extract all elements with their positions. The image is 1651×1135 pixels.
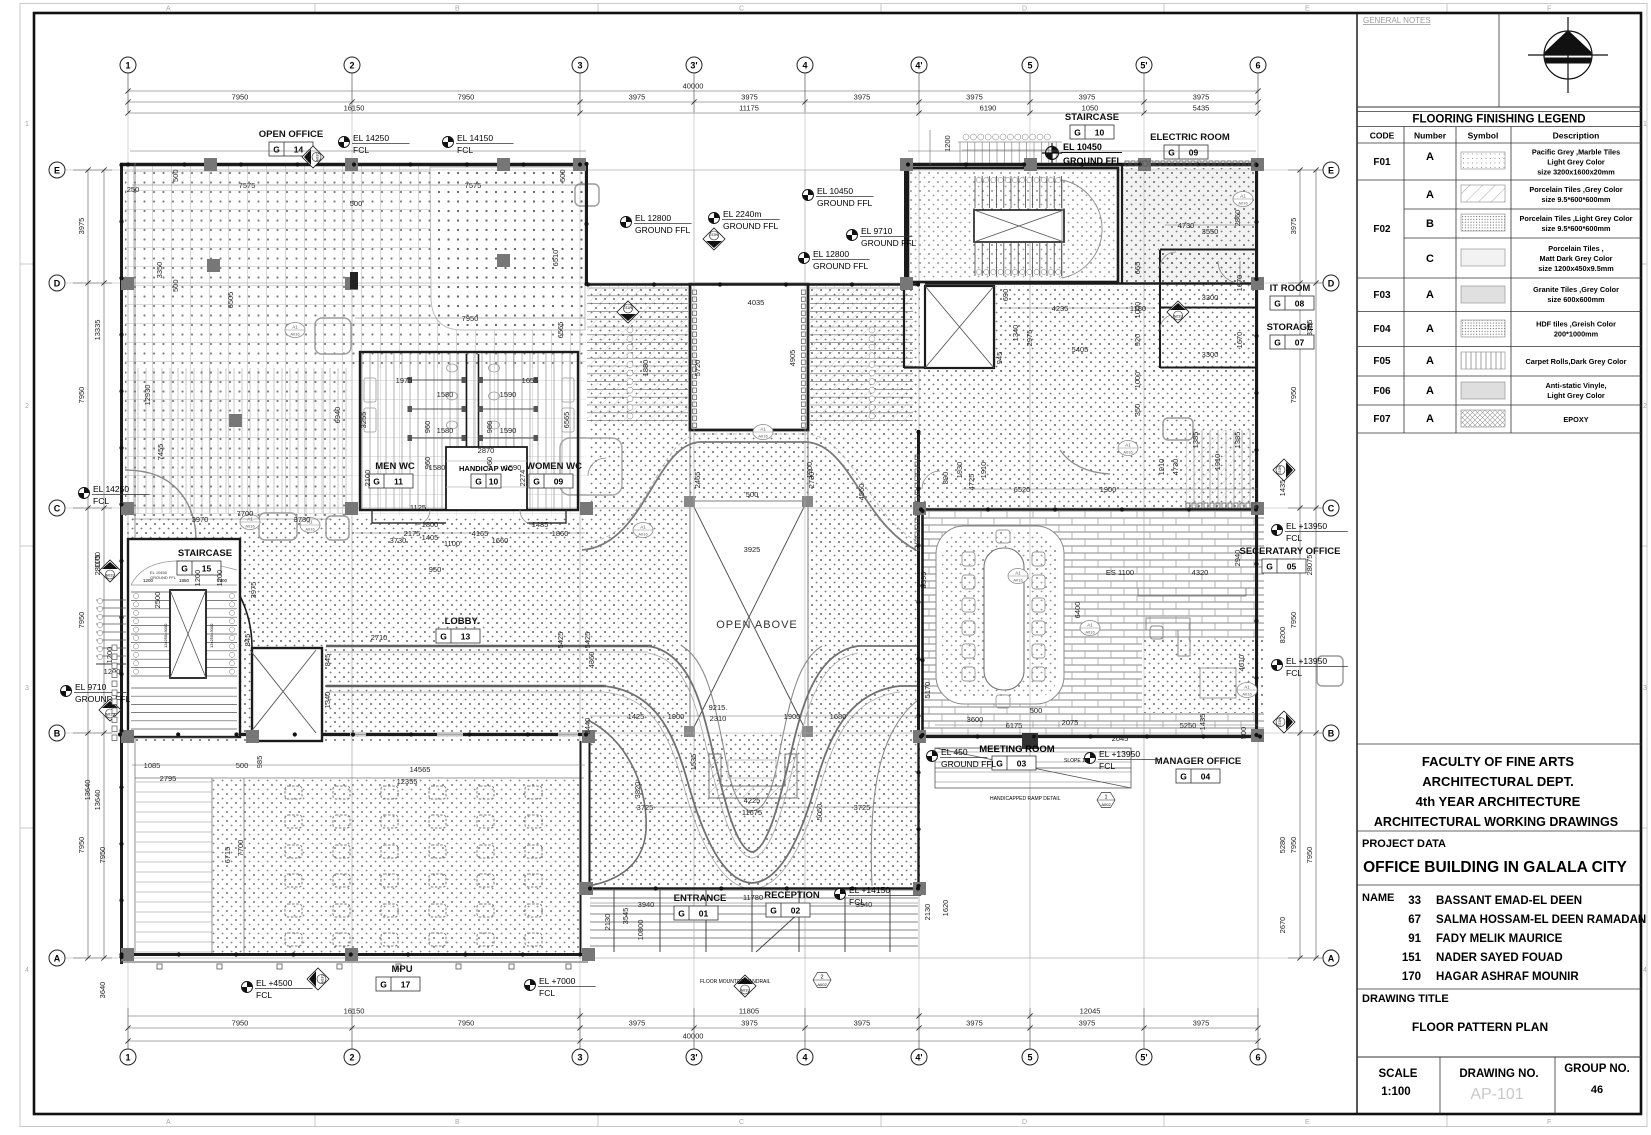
svg-text:500: 500	[558, 169, 567, 182]
svg-text:A1: A1	[760, 427, 766, 432]
svg-text:GROUND FFL: GROUND FFL	[1063, 156, 1122, 166]
svg-text:A1: A1	[1087, 623, 1093, 628]
svg-text:1: 1	[1643, 121, 1647, 128]
svg-text:1435: 1435	[1198, 714, 1207, 731]
svg-text:HDF tiles ,Greish Color: HDF tiles ,Greish Color	[1536, 320, 1616, 329]
svg-text:3975: 3975	[741, 1019, 758, 1028]
svg-text:G: G	[273, 145, 280, 155]
svg-text:3550: 3550	[1202, 227, 1219, 236]
svg-text:950: 950	[429, 565, 442, 574]
svg-text:3600: 3600	[967, 715, 984, 724]
svg-text:MPU: MPU	[391, 964, 412, 975]
svg-text:09: 09	[554, 477, 564, 487]
svg-text:A033: A033	[623, 306, 633, 311]
svg-text:2975: 2975	[1025, 330, 1034, 347]
svg-text:7950: 7950	[77, 612, 86, 629]
svg-text:2130: 2130	[923, 904, 932, 921]
svg-text:Anti-static Vinyle,: Anti-static Vinyle,	[1545, 381, 1606, 390]
svg-text:GROUND FFL: GROUND FFL	[817, 198, 873, 208]
svg-text:A016: A016	[1013, 578, 1023, 583]
grid bubbles top	[120, 57, 1266, 73]
wavy curve U outer companion	[648, 653, 858, 858]
svg-text:960: 960	[485, 421, 494, 434]
svg-text:4225: 4225	[744, 796, 761, 805]
svg-text:3730: 3730	[294, 515, 311, 524]
svg-text:4560: 4560	[857, 484, 866, 501]
svg-text:5050: 5050	[815, 804, 824, 821]
svg-text:size 3200x1600x20mm: size 3200x1600x20mm	[1537, 168, 1615, 177]
svg-text:1: 1	[25, 121, 29, 128]
svg-text:3640: 3640	[98, 982, 107, 999]
outer wall top-left wing	[120, 163, 588, 964]
svg-text:1435: 1435	[1278, 480, 1287, 497]
elevation marker EL 14250	[339, 133, 410, 155]
svg-text:4360: 4360	[587, 652, 596, 669]
svg-text:1: 1	[125, 61, 130, 71]
svg-text:F04: F04	[1373, 324, 1391, 335]
svg-text:A: A	[1426, 355, 1434, 367]
section markers	[99, 560, 121, 582]
svg-text:960: 960	[423, 457, 432, 470]
staircase G10 treads lower	[975, 243, 1061, 276]
svg-text:16150: 16150	[344, 1007, 365, 1016]
interior dim lines	[132, 185, 1258, 903]
svg-text:5425: 5425	[556, 632, 565, 649]
svg-text:A: A	[166, 6, 171, 13]
elevation marker EL +13950	[1272, 656, 1348, 678]
svg-text:4th YEAR ARCHITECTURE: 4th YEAR ARCHITECTURE	[1416, 794, 1581, 809]
svg-text:2: 2	[820, 975, 823, 981]
svg-text:3975: 3975	[77, 218, 86, 235]
svg-text:4': 4'	[915, 61, 922, 71]
svg-text:WOMEN WC: WOMEN WC	[526, 461, 582, 472]
svg-text:4: 4	[1643, 967, 1647, 974]
svg-text:F: F	[1547, 1119, 1551, 1126]
svg-text:A033: A033	[105, 573, 115, 578]
svg-text:Symbol: Symbol	[1468, 131, 1499, 141]
svg-text:500: 500	[171, 279, 180, 292]
svg-text:EL 450: EL 450	[941, 747, 968, 757]
svg-text:17: 17	[401, 980, 411, 990]
elevation marker EL 9710	[847, 226, 917, 248]
svg-text:A033: A033	[1278, 465, 1283, 475]
svg-text:1000: 1000	[1133, 302, 1142, 319]
svg-text:08: 08	[1295, 299, 1305, 309]
svg-text:E: E	[1305, 6, 1310, 13]
electric room dotted floor	[1122, 168, 1258, 282]
svg-text:1620: 1620	[941, 900, 950, 917]
svg-text:4730: 4730	[1171, 459, 1180, 476]
svg-text:G: G	[533, 477, 540, 487]
svg-text:G: G	[770, 906, 777, 916]
svg-text:4905: 4905	[788, 350, 797, 367]
svg-text:1670: 1670	[1235, 275, 1244, 292]
entrance block walls	[588, 430, 920, 889]
svg-text:500: 500	[171, 169, 180, 182]
svg-text:3975: 3975	[1193, 93, 1210, 102]
staircase G10 tread number rows	[963, 134, 1061, 275]
MPU floor dots	[212, 778, 580, 955]
MPU top wall	[120, 596, 588, 735]
svg-text:GROUND FFL: GROUND FFL	[635, 225, 691, 235]
svg-text:7950: 7950	[98, 847, 107, 864]
svg-text:FCL: FCL	[256, 990, 272, 1000]
svg-text:SECERATARY OFFICE: SECERATARY OFFICE	[1240, 546, 1341, 557]
svg-text:4320: 4320	[1192, 568, 1209, 577]
svg-text:1:100: 1:100	[1381, 1086, 1410, 1098]
svg-text:F: F	[1547, 6, 1551, 13]
svg-text:845: 845	[323, 654, 332, 667]
svg-text:500: 500	[1239, 727, 1248, 740]
svg-text:A: A	[166, 1119, 171, 1126]
svg-text:size 9.5*600*600mm: size 9.5*600*600mm	[1542, 195, 1611, 204]
svg-text:5: 5	[1027, 1053, 1032, 1063]
svg-text:3: 3	[25, 685, 29, 692]
escape stair circled numbers	[627, 327, 875, 419]
svg-text:size 9.5*600*600mm: size 9.5*600*600mm	[1542, 224, 1611, 233]
svg-text:1535: 1535	[689, 754, 698, 771]
svg-text:1: 1	[125, 1053, 130, 1063]
svg-text:EL +13950: EL +13950	[1286, 656, 1327, 666]
elevation marker EL 14250	[79, 484, 150, 506]
meeting chairs	[962, 530, 1045, 708]
staircase G15 treads	[131, 592, 237, 737]
staircase G15 dim row	[131, 584, 237, 586]
svg-text:1670: 1670	[1235, 332, 1244, 349]
secretary dotted island	[1142, 640, 1264, 713]
svg-text:01: 01	[699, 909, 709, 919]
svg-text:G: G	[1168, 148, 1175, 158]
svg-text:EL 12800: EL 12800	[635, 213, 671, 223]
wavy curve U mid companion	[604, 692, 900, 889]
svg-text:1580: 1580	[437, 390, 454, 399]
svg-text:2940: 2940	[1233, 550, 1242, 567]
svg-text:G: G	[1266, 562, 1273, 572]
svg-text:6940: 6940	[333, 407, 342, 424]
elevation marker EL 14150	[443, 133, 514, 155]
svg-text:A016: A016	[290, 332, 300, 337]
svg-text:945: 945	[995, 352, 1004, 365]
svg-text:ARCHITECTURAL WORKING DRAWINGS: ARCHITECTURAL WORKING DRAWINGS	[1374, 815, 1618, 829]
svg-text:67: 67	[1408, 914, 1421, 926]
svg-text:7950: 7950	[77, 837, 86, 854]
svg-text:A016: A016	[245, 524, 255, 529]
svg-text:12355: 12355	[397, 777, 418, 786]
svg-text:1800: 1800	[422, 520, 439, 529]
svg-text:ELECTRIC ROOM: ELECTRIC ROOM	[1150, 132, 1230, 143]
svg-text:G: G	[181, 564, 188, 574]
svg-text:960: 960	[485, 457, 494, 470]
svg-text:F07: F07	[1373, 414, 1391, 425]
svg-text:6505: 6505	[226, 292, 235, 309]
svg-text:1425: 1425	[628, 712, 645, 721]
svg-text:1340: 1340	[323, 692, 332, 709]
svg-text:6400: 6400	[1073, 602, 1082, 619]
svg-text:1850: 1850	[179, 578, 190, 583]
svg-text:GROUND FFL: GROUND FFL	[941, 759, 997, 769]
svg-text:1910: 1910	[1213, 454, 1222, 471]
svg-text:3975: 3975	[629, 93, 646, 102]
svg-text:GROUND FFL: GROUND FFL	[75, 694, 131, 704]
svg-text:A: A	[1426, 151, 1434, 163]
svg-text:200*1000mm: 200*1000mm	[1554, 330, 1599, 339]
svg-text:13: 13	[461, 632, 471, 642]
WC stall partitions	[408, 378, 538, 441]
north arrow	[1528, 17, 1608, 93]
svg-text:A: A	[1426, 385, 1434, 397]
svg-text:A: A	[1426, 289, 1434, 301]
svg-text:1100: 1100	[93, 552, 102, 568]
svg-text:7950: 7950	[77, 387, 86, 404]
svg-text:11: 11	[394, 477, 403, 487]
svg-text:2: 2	[1643, 403, 1647, 410]
svg-text:Description: Description	[1553, 131, 1600, 141]
structural columns	[121, 158, 1264, 961]
svg-text:ES 1100: ES 1100	[1106, 568, 1134, 577]
svg-text:A002: A002	[1101, 802, 1111, 807]
svg-text:2045: 2045	[1112, 734, 1129, 743]
svg-text:3970: 3970	[192, 515, 209, 524]
title block divider	[1356, 13, 1358, 1114]
svg-text:40000: 40000	[683, 82, 704, 91]
staircase G15 tread numbers	[133, 593, 234, 674]
svg-text:D: D	[54, 279, 61, 289]
svg-text:EL +14150: EL +14150	[849, 885, 890, 895]
elevation marker EL +13950	[1272, 521, 1348, 543]
svg-text:AP-101: AP-101	[1470, 1086, 1523, 1103]
svg-text:B: B	[455, 6, 460, 13]
svg-text:960: 960	[423, 421, 432, 434]
svg-text:4035: 4035	[748, 298, 765, 307]
svg-text:6520: 6520	[1014, 485, 1031, 494]
ramp strip	[935, 748, 1131, 788]
svg-text:3: 3	[577, 1053, 582, 1063]
svg-text:EL 9710: EL 9710	[75, 682, 107, 692]
svg-text:C: C	[54, 504, 61, 514]
open office dotted zone top-right	[430, 167, 585, 330]
svg-text:4: 4	[802, 61, 807, 71]
svg-text:7950: 7950	[1289, 612, 1298, 629]
svg-text:B: B	[1426, 218, 1434, 230]
svg-text:890: 890	[941, 472, 950, 485]
WC floor	[360, 352, 578, 510]
svg-text:A033: A033	[315, 152, 320, 162]
svg-text:1910: 1910	[979, 462, 988, 479]
svg-text:EL 14250: EL 14250	[93, 484, 129, 494]
svg-text:F03: F03	[1373, 290, 1391, 301]
svg-text:500: 500	[1030, 706, 1043, 715]
svg-text:500: 500	[236, 761, 249, 770]
elevation marker EL +14150	[835, 885, 922, 907]
entrance steps	[590, 890, 918, 952]
svg-text:4165: 4165	[472, 529, 489, 538]
svg-text:E: E	[1328, 166, 1334, 176]
svg-text:A1: A1	[1244, 685, 1250, 690]
svg-text:A1: A1	[292, 325, 298, 330]
lobby dotted floor	[125, 516, 588, 741]
svg-text:845: 845	[243, 634, 252, 647]
svg-text:Number: Number	[1414, 131, 1447, 141]
svg-text:1900: 1900	[805, 462, 814, 479]
svg-text:G: G	[1180, 772, 1187, 782]
svg-text:1900: 1900	[1100, 485, 1117, 494]
wall bead dots	[118, 162, 1262, 959]
svg-text:NAME: NAME	[1362, 892, 1394, 904]
svg-text:DRAWING TITLE: DRAWING TITLE	[1362, 993, 1449, 1005]
svg-text:8440: 8440	[583, 718, 592, 735]
svg-text:1900: 1900	[784, 712, 801, 721]
svg-text:1590: 1590	[500, 390, 517, 399]
right wing walls	[904, 165, 1258, 368]
svg-text:A: A	[1426, 189, 1434, 201]
svg-text:6565: 6565	[556, 322, 565, 339]
svg-text:2: 2	[349, 61, 354, 71]
svg-text:2175: 2175	[404, 529, 421, 538]
svg-text:Light Grey Color: Light Grey Color	[1547, 391, 1605, 400]
svg-text:2075: 2075	[1062, 718, 1079, 727]
svg-text:A033: A033	[320, 974, 325, 984]
svg-text:1340: 1340	[1011, 325, 1020, 342]
svg-text:G: G	[440, 632, 447, 642]
elevation marker EL 450	[927, 747, 997, 769]
svg-text:6175: 6175	[1006, 721, 1023, 730]
louver dashes top right	[1125, 161, 1256, 508]
svg-text:2860: 2860	[1233, 210, 1242, 227]
exterior stair left	[96, 600, 126, 656]
svg-text:MEN WC: MEN WC	[375, 461, 415, 472]
svg-text:350: 350	[1133, 404, 1142, 417]
svg-text:A1: A1	[1015, 571, 1021, 576]
svg-text:G: G	[373, 477, 380, 487]
svg-text:FLOOR PATTERN PLAN: FLOOR PATTERN PLAN	[1412, 1020, 1548, 1034]
svg-text:FACULTY OF FINE ARTS: FACULTY OF FINE ARTS	[1422, 754, 1574, 769]
svg-text:7950: 7950	[458, 93, 475, 102]
svg-text:5: 5	[1027, 61, 1032, 71]
door swing arcs	[415, 252, 1240, 525]
svg-text:6190: 6190	[980, 104, 997, 113]
open above corner columns	[684, 496, 813, 737]
svg-text:3975: 3975	[1193, 1019, 1210, 1028]
svg-text:G: G	[1274, 299, 1281, 309]
svg-text:05: 05	[1287, 562, 1297, 572]
svg-text:11675: 11675	[742, 808, 762, 817]
svg-text:Light Grey Color: Light Grey Color	[1547, 158, 1605, 167]
svg-text:B: B	[455, 1119, 460, 1126]
svg-text:4: 4	[802, 1053, 807, 1063]
elevator shaft right wing	[925, 286, 994, 368]
svg-text:2310: 2310	[710, 714, 727, 723]
MPU stage strip hlines	[136, 780, 212, 955]
svg-text:250: 250	[127, 185, 140, 194]
svg-text:GROUP NO.: GROUP NO.	[1564, 1063, 1630, 1075]
svg-text:3': 3'	[690, 61, 697, 71]
svg-text:G: G	[475, 477, 482, 487]
handicap WC room	[446, 447, 527, 510]
grid axis lines overlay	[120, 170, 1260, 958]
upper void shaft	[690, 284, 808, 430]
svg-text:5280: 5280	[1278, 837, 1287, 854]
svg-text:C: C	[739, 1119, 744, 1126]
left dimension lines	[73, 170, 112, 958]
svg-text:DRAWING NO.: DRAWING NO.	[1459, 1068, 1538, 1080]
svg-text:D: D	[1022, 6, 1027, 13]
elevation marker EL +13950	[1085, 749, 1161, 771]
svg-text:13335: 13335	[93, 320, 102, 341]
svg-text:4610: 4610	[1237, 655, 1246, 672]
svg-text:1125: 1125	[410, 503, 426, 512]
right wing vertical-line strip	[1186, 430, 1258, 506]
svg-text:3300: 3300	[1202, 293, 1219, 302]
svg-text:EL 12800: EL 12800	[813, 249, 849, 259]
svg-text:10: 10	[489, 477, 499, 487]
wavy curve entrance right	[871, 700, 918, 886]
svg-text:ENTRANCE: ENTRANCE	[674, 893, 727, 904]
svg-text:A002: A002	[817, 982, 827, 987]
MPU bottom louver boxes	[157, 964, 571, 969]
MPU auditorium seats	[285, 786, 542, 946]
svg-text:EL 10450: EL 10450	[817, 186, 853, 196]
open above cross	[692, 503, 806, 731]
svg-text:500: 500	[746, 490, 759, 499]
svg-text:7950: 7950	[232, 93, 249, 102]
elevation marker EL 12800	[799, 249, 870, 271]
svg-text:665: 665	[1133, 262, 1142, 275]
svg-text:E: E	[1305, 1119, 1310, 1126]
staircase G10 dotted floor	[908, 172, 1118, 280]
svg-text:33: 33	[1408, 895, 1421, 907]
svg-text:5720: 5720	[693, 360, 702, 377]
svg-text:LOBBY.: LOBBY.	[445, 616, 480, 627]
svg-text:7950: 7950	[1305, 847, 1314, 864]
svg-text:D: D	[1022, 1119, 1027, 1126]
svg-text:Granite Tiles ,Grey Color: Granite Tiles ,Grey Color	[1533, 285, 1619, 294]
svg-text:A016: A016	[1085, 630, 1095, 635]
svg-text:STAIRCASE: STAIRCASE	[1065, 112, 1119, 123]
IT room + storage dotted floor	[1160, 250, 1257, 368]
staircase G10 walls	[908, 168, 1118, 282]
svg-text:2274: 2274	[518, 470, 527, 487]
svg-text:Matt Dark Grey Color: Matt Dark Grey Color	[1540, 254, 1613, 263]
svg-text:Carpet Rolls,Dark Grey Color: Carpet Rolls,Dark Grey Color	[1526, 357, 1627, 366]
svg-text:15: 15	[202, 564, 212, 574]
svg-text:2670: 2670	[1278, 917, 1287, 934]
elevator shaft lobby	[252, 648, 322, 741]
svg-text:1: 1	[1104, 795, 1107, 801]
top dimension lines	[128, 73, 1258, 113]
svg-text:EL +13950: EL +13950	[1286, 521, 1327, 531]
svg-text:PROJECT DATA: PROJECT DATA	[1362, 838, 1446, 850]
svg-text:690: 690	[1001, 289, 1010, 302]
crosshair elevation marker EL 10450	[1042, 143, 1062, 163]
svg-text:G: G	[1074, 128, 1081, 138]
svg-text:GROUND FFL: GROUND FFL	[150, 575, 177, 580]
secretary desks	[1138, 588, 1246, 698]
svg-text:GROUND FFL: GROUND FFL	[861, 238, 917, 248]
svg-text:F01: F01	[1373, 157, 1391, 168]
svg-text:C: C	[739, 6, 744, 13]
svg-text:3975: 3975	[629, 1019, 646, 1028]
svg-text:1200: 1200	[943, 135, 952, 152]
svg-text:A1: A1	[1125, 443, 1131, 448]
svg-text:7950: 7950	[232, 1019, 249, 1028]
svg-text:SALMA HOSSAM-EL DEEN RAMADAN: SALMA HOSSAM-EL DEEN RAMADAN	[1436, 914, 1646, 926]
svg-text:F06: F06	[1373, 386, 1391, 397]
svg-text:12045: 12045	[1080, 1007, 1101, 1016]
svg-text:1590: 1590	[500, 426, 517, 435]
svg-text:4235: 4235	[1052, 304, 1069, 313]
svg-text:A016: A016	[758, 434, 768, 439]
svg-text:3: 3	[577, 61, 582, 71]
